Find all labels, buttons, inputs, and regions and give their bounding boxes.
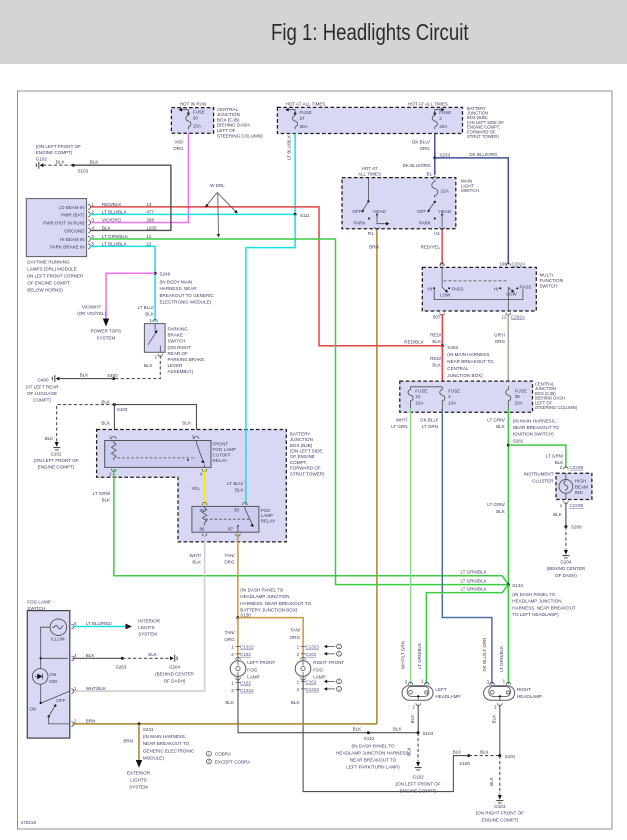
wire RED/BLK MFS 507 down to S263 (430, 314, 442, 346)
svg-text:LT GRN/BLK: LT GRN/BLK (460, 570, 486, 575)
svg-text:(IN DASH PANEL TO: (IN DASH PANEL TO (240, 587, 284, 592)
svg-text:(IN MAIN HARNESS,: (IN MAIN HARNESS, (447, 352, 490, 357)
svg-text:PASS: PASS (452, 286, 464, 291)
fog switch pin 2 (71, 719, 95, 727)
svg-text:BLK: BLK (192, 559, 201, 564)
wire BLK fog switch to S283 (73, 657, 123, 659)
svg-text:C162: C162 (306, 680, 317, 685)
illumination lamp ILLUM (41, 619, 67, 703)
svg-text:HARNESS, NEAR: HARNESS, NEAR (160, 286, 198, 291)
wire BLK right fog lamp ground run to S100 (303, 676, 469, 791)
wire BRN S231 to exterior lights (123, 724, 139, 760)
fog switch pin 1 (71, 686, 106, 694)
fuse F4 (440, 387, 460, 408)
wire BLK dashed S103 to G102 (407, 733, 418, 762)
svg-text:S206: S206 (571, 524, 582, 529)
svg-text:ORG: ORG (224, 637, 235, 642)
W DRL option arrows (205, 183, 238, 237)
svg-text:(ON LEFT SIDE: (ON LEFT SIDE (290, 449, 323, 454)
svg-text:RELAY: RELAY (213, 458, 228, 463)
svg-text:PWR (HOT IN RUN): PWR (HOT IN RUN) (43, 221, 85, 226)
svg-text:G400: G400 (37, 378, 49, 383)
svg-text:BREAKOUT TO GENERIC: BREAKOUT TO GENERIC (160, 293, 215, 298)
svg-text:BRAKE: BRAKE (168, 333, 183, 338)
right front fog lamp (295, 657, 344, 680)
battery junction box lower (L-shaped) (97, 430, 325, 542)
svg-text:RELAY: RELAY (261, 518, 276, 523)
splice S233 (433, 152, 450, 159)
svg-text:NEAR BREAKOUT TO: NEAR BREAKOUT TO (350, 758, 397, 763)
svg-text:COMPT,: COMPT, (290, 460, 307, 465)
svg-text:ALL TIMES: ALL TIMES (358, 171, 381, 176)
svg-text:LEFT OF: LEFT OF (217, 128, 236, 133)
svg-text:170218: 170218 (21, 820, 37, 825)
wire TAN/ORG S130 to left front fog lamp (224, 618, 238, 661)
svg-text:BOX (BJB): BOX (BJB) (290, 443, 313, 448)
svg-text:CENTRAL: CENTRAL (217, 107, 239, 112)
svg-text:HARNESS, NEAR BREAKOUT: HARNESS, NEAR BREAKOUT (512, 605, 576, 610)
svg-text:BLK: BLK (353, 727, 362, 732)
ground G204 behind dash (547, 550, 586, 578)
fuse F2 (432, 108, 451, 129)
svg-text:HEADLAMP JUNCTION: HEADLAMP JUNCTION (240, 594, 289, 599)
ground G204 fog switch (155, 655, 194, 684)
svg-text:OF DASH): OF DASH) (164, 679, 186, 684)
svg-text:(ON RIGHT FRONT OF: (ON RIGHT FRONT OF (476, 810, 524, 815)
svg-text:BLK: BLK (235, 488, 244, 493)
svg-text:TAN/: TAN/ (225, 630, 236, 635)
svg-text:HEADLAMP: HEADLAMP (517, 694, 542, 699)
splice S263 (441, 344, 494, 378)
wire LT GRN/BLK DRL pin5 down to S133 (line B) (90, 239, 508, 585)
svg-text:30A: 30A (439, 124, 448, 129)
label LT BLU/BLK at fog relay pin 30 (227, 481, 244, 493)
svg-text:27: 27 (300, 116, 306, 121)
ground G103 (476, 795, 524, 822)
svg-text:LT GRN/BLK: LT GRN/BLK (417, 643, 422, 669)
svg-text:LEFT: LEFT (435, 687, 446, 692)
svg-text:OF DASH): OF DASH) (555, 573, 577, 578)
svg-text:LT GRN/: LT GRN/ (487, 502, 505, 507)
svg-text:15: 15 (439, 262, 445, 267)
svg-text:BATTERY: BATTERY (290, 431, 311, 436)
svg-text:FOG: FOG (261, 508, 271, 513)
splice S283 (116, 657, 127, 670)
multi-function switch box (422, 267, 563, 311)
wire BLK S103 to relay pin 3 (114, 405, 196, 439)
svg-text:OF LUGGAGE: OF LUGGAGE (27, 391, 57, 396)
svg-text:196: 196 (499, 262, 507, 267)
instrument cluster box (524, 472, 592, 500)
svg-text:HI: HI (427, 286, 432, 291)
svg-text:SYSTEM: SYSTEM (129, 785, 148, 790)
svg-text:S246: S246 (160, 271, 171, 276)
svg-text:CUTOFF: CUTOFF (213, 453, 232, 458)
svg-text:RED/BLK: RED/BLK (102, 202, 121, 207)
wire VIO/WHT S246 to power tops system (77, 273, 155, 318)
svg-text:FOG LAMP: FOG LAMP (213, 447, 237, 452)
svg-text:H1: H1 (434, 231, 440, 236)
svg-text:JUNCTION: JUNCTION (290, 437, 313, 442)
fuse F38 (506, 386, 527, 408)
wire BLK dashed parking brake pin2 to S450 (114, 356, 161, 379)
svg-text:S103: S103 (78, 169, 89, 174)
left headlamp (402, 679, 460, 710)
svg-text:S233: S233 (440, 152, 451, 157)
svg-text:LT GRN/: LT GRN/ (546, 454, 564, 459)
splice S281 (507, 418, 560, 446)
svg-text:S281: S281 (513, 438, 524, 443)
svg-text:S130: S130 (240, 612, 251, 617)
svg-text:(IN DASH PANEL TO: (IN DASH PANEL TO (351, 743, 395, 748)
svg-text:OFF: OFF (352, 209, 361, 214)
svg-text:(IN DASH PANEL TO: (IN DASH PANEL TO (512, 592, 556, 597)
ground G400 (25, 375, 59, 403)
svg-text:BLK: BLK (410, 715, 415, 724)
legend cobra (207, 751, 252, 764)
high beam indicator lamp (559, 473, 588, 499)
svg-text:DK BLU/: DK BLU/ (412, 139, 430, 144)
exterior lights system arrow (127, 760, 151, 790)
svg-text:38: 38 (515, 394, 521, 399)
svg-text:BEAM: BEAM (575, 484, 588, 489)
svg-text:WHT/: WHT/ (189, 553, 201, 558)
svg-text:30: 30 (234, 508, 240, 513)
fog switch lever ON (29, 691, 69, 711)
svg-text:Fig 1: Headlights Circuit: Fig 1: Headlights Circuit (271, 19, 469, 45)
svg-text:OF ENGINE COMPT,: OF ENGINE COMPT, (27, 281, 70, 286)
svg-text:HEADLAMP JUNCTION: HEADLAMP JUNCTION (512, 599, 561, 604)
svg-text:BLK: BLK (86, 653, 95, 658)
svg-text:PARKING: PARKING (168, 327, 189, 332)
svg-text:STEERING COLUMN): STEERING COLUMN) (217, 133, 263, 138)
wire BRN R1 down to S231 (369, 230, 379, 724)
svg-text:SYSTEM: SYSTEM (138, 632, 157, 637)
svg-text:1: 1 (208, 752, 210, 756)
svg-text:SYSTEM: SYSTEM (97, 336, 116, 341)
svg-text:OF ENGINE: OF ENGINE (290, 454, 315, 459)
svg-text:JUNCTION: JUNCTION (217, 112, 240, 117)
svg-text:SWITCH: SWITCH (540, 284, 558, 289)
svg-text:(ON LEFT FRONT OF: (ON LEFT FRONT OF (33, 458, 78, 463)
svg-text:TAN/: TAN/ (224, 553, 235, 558)
svg-text:LT BLU/RED: LT BLU/RED (86, 621, 113, 626)
cluster pin 1 C220B (560, 501, 584, 508)
svg-text:BLK: BLK (182, 421, 191, 426)
wire LT GRN/BLK relay pin2 down and right to S133 (line A) (93, 469, 509, 585)
splice S450 (107, 373, 118, 380)
wire LT BLU/BLK DRL pin6 down to parking brake switch (90, 246, 155, 322)
ground G102 top-left (36, 144, 81, 169)
wire TAN/ORG S130 to right front fog lamp (238, 618, 303, 661)
svg-text:15A: 15A (193, 124, 202, 129)
svg-text:BLK: BLK (480, 750, 489, 755)
svg-text:G102: G102 (36, 156, 48, 161)
svg-text:ORG: ORG (495, 339, 506, 344)
svg-text:WHT/LT GRN: WHT/LT GRN (401, 641, 406, 669)
wire BLK left fog lamp ground run to S103 (238, 676, 418, 732)
fuse F30 (186, 114, 191, 130)
pin 196 C202A (499, 262, 526, 267)
wire WHT/BLK fog relay 86 to fog switch pin 1 (72, 534, 205, 692)
svg-text:LT GRN: LT GRN (422, 424, 438, 429)
header band (0, 0, 627, 64)
svg-text:DK BLU/: DK BLU/ (420, 417, 438, 422)
svg-text:BLK: BLK (80, 373, 89, 378)
svg-text:S100: S100 (459, 761, 470, 766)
wire VIO/ORG fuse30 to DRL pin3 (90, 133, 188, 222)
circuit breaker 22A (432, 180, 450, 198)
cluster pin 2 C220B (560, 465, 584, 470)
svg-text:ELECTRONIC MODULE): ELECTRONIC MODULE) (160, 300, 212, 305)
battery junction box top (fuses 27 and 2) (277, 102, 462, 134)
fog lamp BLK labels (225, 700, 299, 705)
wire BLK right headlamp to S101 (492, 705, 500, 756)
svg-text:C220B: C220B (570, 465, 584, 470)
wire BLK dashed S101 to G103 (489, 756, 500, 795)
svg-text:ENGINE COMPT): ENGINE COMPT) (38, 464, 75, 469)
svg-text:ENGINE COMPT): ENGINE COMPT) (36, 150, 73, 155)
svg-text:C152: C152 (240, 681, 251, 686)
wire GRY/ORG MFS 12 to fuse 38 (494, 314, 508, 386)
svg-text:FRONT: FRONT (213, 442, 229, 447)
variant arrows top (324, 644, 342, 656)
svg-text:LT BLU/BLK: LT BLU/BLK (286, 135, 291, 160)
svg-text:HEAD: HEAD (373, 209, 386, 214)
wire BLK left headlamp to S103 (410, 705, 418, 733)
svg-text:C202A: C202A (511, 314, 526, 319)
svg-text:HEADLAMP: HEADLAMP (435, 694, 460, 699)
svg-text:FORWARD OF: FORWARD OF (290, 466, 321, 471)
svg-text:BLK: BLK (393, 727, 402, 732)
svg-text:MULTI-: MULTI- (540, 272, 555, 277)
svg-text:IGNITION SWITCH): IGNITION SWITCH) (513, 432, 554, 437)
splice S103 top (72, 164, 89, 174)
left fog lamp connectors bottom (231, 681, 254, 693)
wire BLK dashed S103 to G102 (44, 159, 73, 165)
svg-text:FUSE: FUSE (439, 110, 451, 115)
svg-text:S263: S263 (116, 665, 127, 670)
svg-text:PWR (BAT): PWR (BAT) (61, 212, 85, 217)
svg-text:LAMP: LAMP (247, 675, 259, 680)
svg-text:FUSE: FUSE (193, 110, 205, 115)
svg-text:HEADLAMP JUNCTION HARNESS,: HEADLAMP JUNCTION HARNESS, (336, 750, 410, 755)
svg-text:20A: 20A (515, 401, 524, 406)
wire BLK S103 down to relay pin 1 (101, 405, 114, 439)
wire WHT/LT GRN fuse10 to left headlamp pin3 (391, 408, 410, 684)
svg-text:S133: S133 (512, 583, 523, 588)
svg-text:BRN: BRN (86, 719, 96, 724)
fuse F10 (408, 389, 427, 409)
svg-text:REAR OF: REAR OF (168, 351, 188, 356)
svg-text:BLK: BLK (453, 750, 462, 755)
svg-text:S231: S231 (143, 727, 154, 732)
svg-text:BLK: BLK (432, 363, 441, 368)
main light switch box (342, 178, 479, 229)
labels LT GRN/BLK on lines A B C (460, 570, 486, 592)
svg-text:HOT AT ALL TIMES: HOT AT ALL TIMES (408, 102, 448, 107)
svg-text:S110: S110 (364, 736, 375, 741)
svg-text:G102: G102 (50, 451, 62, 456)
svg-text:2: 2 (338, 680, 340, 684)
ground G102 mid-left (33, 442, 78, 469)
svg-text:DK BLU/ORG: DK BLU/ORG (469, 152, 498, 157)
svg-text:BLK: BLK (56, 159, 65, 164)
svg-text:(BEHIND CENTER: (BEHIND CENTER (547, 566, 586, 571)
svg-text:G204: G204 (169, 665, 181, 670)
label HOT AT ALL TIMES internal feed (358, 166, 381, 176)
svg-text:LT GRN/BLK: LT GRN/BLK (460, 587, 486, 592)
svg-text:LT GRN/BLK: LT GRN/BLK (102, 234, 128, 239)
splice S206 (564, 524, 582, 529)
svg-text:87: 87 (228, 527, 234, 532)
svg-text:(ON LEFT FRONT OF: (ON LEFT FRONT OF (396, 781, 441, 786)
svg-text:ILLUM: ILLUM (51, 637, 65, 642)
svg-text:VIO/ORG: VIO/ORG (102, 218, 122, 223)
wire DK BLU/ORG S233 to B1 (403, 158, 435, 175)
svg-text:LT GRN/: LT GRN/ (93, 491, 111, 496)
left fog lamp connectors top (231, 645, 254, 657)
svg-text:RIGHT FRONT: RIGHT FRONT (313, 660, 344, 665)
svg-text:BLK: BLK (496, 509, 505, 514)
svg-text:LIGHTS: LIGHTS (130, 778, 146, 783)
wire LT BLU/BLK DRL pin2 to S111 (90, 213, 295, 215)
DRL pin stubs and numbers (88, 202, 95, 249)
svg-text:G102: G102 (413, 774, 425, 779)
svg-text:DAYTIME RUNNING: DAYTIME RUNNING (27, 259, 70, 264)
svg-text:S111: S111 (300, 213, 310, 218)
DRL wire name labels (102, 202, 157, 247)
svg-text:HI: HI (494, 286, 499, 291)
svg-text:LEVER: LEVER (168, 363, 184, 368)
svg-text:S263: S263 (447, 345, 458, 350)
svg-text:B1: B1 (426, 171, 432, 176)
fuse F27 (285, 108, 311, 129)
svg-text:LEFT FRONT: LEFT FRONT (247, 660, 275, 665)
svg-text:MODULE): MODULE) (143, 755, 164, 760)
wire TAN/ORG fog relay 87 to S130 (224, 534, 238, 618)
fog switch lever OFF (48, 698, 70, 724)
svg-text:LIGHTS: LIGHTS (138, 625, 154, 630)
svg-text:STRUT TOWER): STRUT TOWER) (290, 471, 325, 476)
parking brake switch (144, 318, 204, 374)
svg-text:DK BLU/ORG: DK BLU/ORG (403, 163, 432, 168)
fog lamp relay (192, 502, 275, 536)
wire YEL relay pin4 to fog relay pin 85 (191, 469, 204, 505)
svg-text:BLK: BLK (432, 339, 441, 344)
splice S133 (507, 583, 576, 617)
splice S111 (294, 213, 311, 218)
svg-text:2: 2 (208, 760, 210, 764)
svg-text:C152: C152 (240, 652, 251, 657)
svg-text:LO BEAM IN: LO BEAM IN (58, 205, 84, 210)
svg-text:10A: 10A (448, 401, 457, 406)
central junction box mid-right (400, 381, 578, 412)
svg-text:GENERIC ELECTRONIC: GENERIC ELECTRONIC (143, 748, 195, 753)
wire LT GRN/BLK fuse38 to S281 and S133 (487, 408, 508, 584)
splice S130 (236, 587, 311, 619)
MFS internals (427, 267, 531, 311)
svg-text:BLK: BLK (101, 421, 110, 426)
svg-text:86: 86 (200, 527, 206, 532)
svg-text:GRY/: GRY/ (494, 333, 506, 338)
svg-text:BRN: BRN (123, 739, 133, 744)
svg-text:BLK: BLK (90, 159, 99, 164)
svg-text:RED/: RED/ (430, 333, 442, 338)
svg-text:13: 13 (146, 202, 152, 207)
wire BLK cluster to S206 (553, 503, 566, 527)
svg-text:FUNCTION: FUNCTION (540, 278, 564, 283)
power tops system arrow (91, 319, 122, 341)
right fog lamp connectors top (297, 645, 320, 657)
DRL module box (26, 199, 86, 293)
front fog lamp cutoff relay (105, 435, 236, 477)
svg-text:OFF: OFF (417, 209, 426, 214)
svg-text:BLK: BLK (407, 747, 412, 756)
wire LT BLU/BLK into fog relay pin 30 (245, 429, 247, 505)
svg-text:LT GRN: LT GRN (391, 424, 407, 429)
svg-text:1: 1 (338, 687, 340, 691)
svg-text:HARNESS, NEAR BREAKOUT TO: HARNESS, NEAR BREAKOUT TO (240, 601, 311, 606)
svg-text:HEAD: HEAD (439, 209, 452, 214)
svg-text:BLK: BLK (492, 715, 497, 724)
svg-text:IND: IND (575, 490, 584, 495)
svg-text:ON: ON (49, 672, 56, 677)
svg-text:G103: G103 (494, 804, 506, 809)
svg-text:LAMPS (DRL) MODULE: LAMPS (DRL) MODULE (27, 266, 77, 271)
svg-text:BLK: BLK (101, 399, 110, 404)
pin H1 (434, 227, 444, 236)
svg-text:CENTRAL: CENTRAL (447, 366, 469, 371)
splice S100 (459, 754, 470, 766)
svg-text:ORG: ORG (290, 635, 301, 640)
wire BLK dashed to G204 (122, 652, 169, 658)
svg-text:GROUND: GROUND (64, 228, 85, 233)
svg-text:EXTERIOR: EXTERIOR (127, 771, 151, 776)
splice S231 (138, 722, 195, 760)
svg-text:FUSE: FUSE (448, 389, 460, 394)
svg-text:(BEHIND DASH,: (BEHIND DASH, (217, 123, 251, 128)
svg-text:BLK: BLK (225, 700, 234, 705)
svg-text:W DRL: W DRL (210, 183, 225, 188)
label: BJB location (467, 106, 504, 139)
svg-text:BELOW HORNS): BELOW HORNS) (27, 288, 63, 293)
svg-text:G204: G204 (560, 559, 572, 564)
wire RED/BLK S263 to fuse4 (430, 346, 442, 387)
svg-text:LT BLU/: LT BLU/ (138, 305, 155, 310)
svg-text:TAN/: TAN/ (290, 628, 301, 633)
svg-text:TO LEFT HEADLAMP): TO LEFT HEADLAMP) (512, 612, 559, 617)
wire RED/BLK S263 left to DRL pin1 (90, 207, 442, 346)
svg-text:(OR VIO/YEL): (OR VIO/YEL) (77, 311, 106, 316)
splice S246 (138, 271, 215, 316)
svg-text:RED/: RED/ (430, 356, 442, 361)
wire DK BLU/ORG S233 branch right to MFS pin 196 (435, 152, 509, 264)
fog lamp switch box (27, 600, 70, 739)
svg-text:1205: 1205 (146, 225, 157, 230)
svg-text:LT GRN/: LT GRN/ (487, 417, 505, 422)
svg-text:BLK: BLK (102, 225, 111, 230)
svg-text:S103: S103 (423, 731, 434, 736)
svg-text:S450: S450 (107, 373, 118, 378)
splice S110 (336, 731, 410, 769)
svg-text:FUSE: FUSE (300, 110, 312, 115)
svg-text:ORG: ORG (224, 559, 235, 564)
svg-text:FOG LAMP: FOG LAMP (27, 600, 51, 605)
svg-text:C162: C162 (306, 652, 317, 657)
svg-text:C220B: C220B (570, 503, 584, 508)
svg-text:BLK: BLK (45, 436, 54, 441)
